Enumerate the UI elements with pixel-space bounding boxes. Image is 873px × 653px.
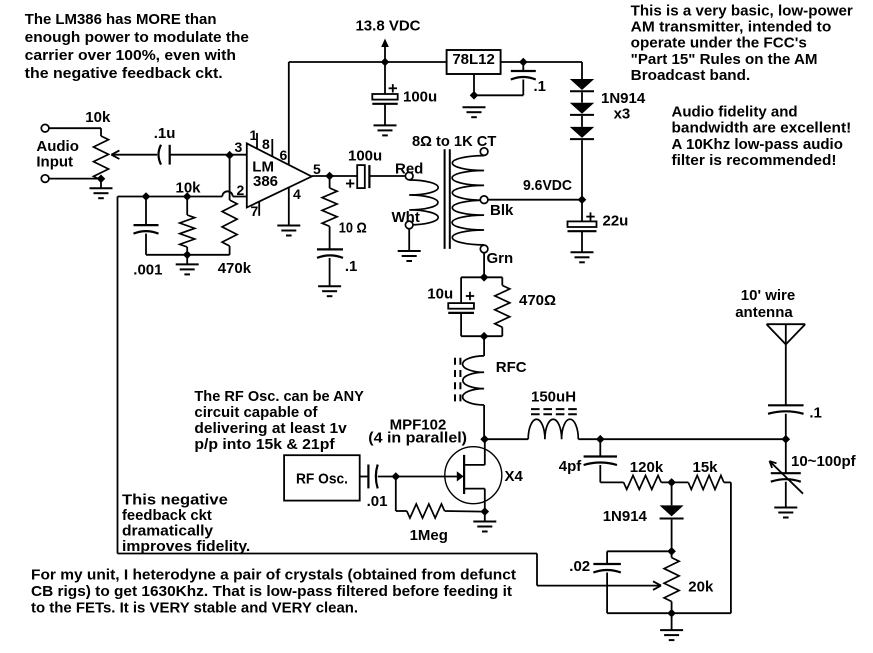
svg-text:100u: 100u [403,89,437,106]
wire 150uH to antenna node [578,435,786,444]
ground under variable cap [774,507,797,509]
label Audio Input [36,138,79,171]
svg-text:.1: .1 [345,258,358,275]
svg-text:Audio fidelity and: Audio fidelity and [672,104,798,121]
svg-text:Wht: Wht [392,209,420,226]
note: transmitter description [631,3,853,84]
capacitor C8 10u [427,277,484,336]
svg-text:the negative feedback ckt.: the negative feedback ckt. [25,65,223,82]
pin 8 tick [262,136,272,156]
svg-text:feedback ckt: feedback ckt [122,507,212,524]
svg-text:Input: Input [36,153,73,170]
capacitor C4 .1u [154,125,176,165]
svg-text:p/p into 15k & 21pf: p/p into 15k & 21pf [194,436,335,453]
resistor R3 470k [218,155,252,277]
svg-text:1N914: 1N914 [603,508,648,525]
pin 1 tick [250,127,258,149]
junction .001 top [142,192,151,201]
transformer T1 secondary [452,148,514,267]
terminal audio input gnd [41,175,49,183]
junction 10k top [183,192,192,201]
transformer T1 core [445,149,450,249]
svg-text:filter is recommended!: filter is recommended! [672,152,837,169]
wire 15k down to bottom row [607,482,731,613]
svg-text:22u: 22u [603,213,629,230]
ground under Wht [398,229,421,261]
capacitor C7 100u output [330,148,406,189]
capacitor C3 22u [568,200,629,253]
svg-text:470Ω: 470Ω [519,292,556,309]
ground under 10k [176,255,199,275]
junction pin3 node [225,151,234,160]
ground under pin 4 [277,225,300,227]
junction antenna node [782,435,791,444]
svg-text:.1u: .1u [154,125,176,142]
svg-text:10k: 10k [85,109,111,126]
svg-text:delivering at least 1v: delivering at least 1v [194,420,347,437]
block RF Osc [284,455,360,500]
svg-text:This negative: This negative [122,492,228,509]
svg-text:.1: .1 [534,78,547,95]
svg-text:CB rigs) to get 1630Khz. That: CB rigs) to get 1630Khz. That is low-pas… [31,583,512,600]
svg-text:The LM386 has MORE than: The LM386 has MORE than [25,11,217,28]
ground under VR1 [90,179,113,198]
svg-text:Blk: Blk [490,202,514,219]
svg-text:operate under the FCC's: operate under the FCC's [631,35,807,52]
resistor R5 470 ohm [484,277,556,336]
svg-text:9.6VDC: 9.6VDC [523,177,572,194]
terminal audio input hot [41,124,49,132]
svg-text:Audio: Audio [36,138,79,155]
wire drain to 150uH [485,438,529,440]
transformer T1 primary [392,161,439,229]
svg-text:10u: 10u [427,285,453,302]
diode D4 1N914 [603,482,684,551]
capacitor C6 .1 [317,249,357,286]
svg-text:"Part 15" Rules on the AM: "Part 15" Rules on the AM [631,51,818,68]
ground under 20k [660,613,683,640]
diode D2 1N914 [570,103,594,127]
svg-text:.001: .001 [133,262,162,279]
wire C4 to pin 3 [170,154,247,156]
svg-text:10~100pf: 10~100pf [791,453,857,470]
resistor R8 15k [688,459,731,489]
note: crystal heterodyne comment [31,567,516,617]
resistor R4 10 ohm [322,176,367,249]
op-amp U1 LM386 [247,143,312,207]
junction bottom row [667,609,676,618]
diode D3 1N914 [570,127,594,139]
svg-text:386: 386 [253,173,278,190]
svg-text:carrier over 100%, even with: carrier over 100%, even with [25,47,236,64]
svg-text:Grn: Grn [487,250,514,267]
svg-text:8: 8 [262,136,270,152]
wire bus to diode chain [581,62,583,79]
svg-text:10' wire: 10' wire [741,287,795,304]
svg-text:X4: X4 [505,468,524,485]
capacitor C1 100u [372,62,437,125]
junction diode/20k/.02 [667,547,676,556]
pin 4 wire [289,186,301,226]
junction supply/100u [381,58,390,67]
svg-text:.02: .02 [569,558,590,575]
svg-text:5: 5 [313,161,321,177]
capacitor C10 4pf [559,439,617,482]
ground under C6 [318,285,341,287]
variable capacitor C13 10~100pf [770,439,857,507]
svg-text:100u: 100u [348,148,382,165]
capacitor C11 .02 [569,551,671,613]
regulator U2 78L12 [447,50,501,74]
label MPF102 [368,417,467,447]
svg-text:improves fidelity.: improves fidelity. [122,538,250,555]
wire top supply bus [289,61,582,63]
wire diodes to 9.6VDC node [581,140,583,200]
svg-text:7: 7 [251,203,259,219]
junction source node [481,507,490,516]
wire pin6 supply drop [288,62,290,165]
svg-text:Broadcast band.: Broadcast band. [631,67,751,84]
capacitor C5 .001 [133,197,162,279]
inductor L1 RFC [455,336,527,439]
svg-text:78L12: 78L12 [452,51,495,68]
svg-text:The RF Osc. can be ANY: The RF Osc. can be ANY [194,388,364,405]
svg-text:15k: 15k [693,459,719,476]
note: negative feedback comment [122,492,250,555]
svg-text:1Meg: 1Meg [410,527,448,544]
junction gate node [392,472,401,481]
node 9.6VDC [488,177,586,204]
ground under C1 [374,124,397,126]
svg-text:120k: 120k [630,459,664,476]
svg-text:13.8 VDC: 13.8 VDC [355,18,420,35]
wire bottom row .001/10k/470k [146,251,230,260]
diode D1 1N914 [570,79,594,103]
antenna 10ft wire [735,287,805,405]
note: audio fidelity comment [672,104,852,169]
junction 120k/15k/diode [667,478,676,487]
svg-text:This is a very basic, low-powe: This is a very basic, low-power [631,3,853,20]
svg-text:10 Ω: 10 Ω [339,220,367,237]
wire pin2 row with hop over 470k [118,191,247,196]
svg-text:bandwidth are excellent!: bandwidth are excellent! [672,120,852,137]
potentiometer VR2 20k [664,551,714,613]
node 13.8VDC supply [355,18,420,62]
svg-text:enough power to modulate the: enough power to modulate the [25,29,249,46]
svg-text:10k: 10k [176,180,202,197]
resistor R6 1Meg [396,477,485,545]
ground under 78L12 [463,106,486,108]
svg-text:6: 6 [280,147,288,163]
note: LM386 power comment [25,11,249,82]
pin 7 tick [251,202,260,219]
inductor L2 150uH [528,389,578,440]
label 1N914 x3 [601,90,646,122]
pin 5 output [312,161,334,180]
svg-text:A 10Khz low-pass audio: A 10Khz low-pass audio [672,136,843,153]
capacitor C12 .1 antenna [768,405,822,440]
svg-text:For my unit, I heterodyne a pa: For my unit, I heterodyne a pair of crys… [31,567,516,584]
note: RF oscillator requirement [194,388,364,453]
potentiometer VR1 10k [49,109,157,183]
wire negative feedback to 20k wiper [118,197,662,590]
capacitor C9 .01 [360,465,396,511]
svg-text:4pf: 4pf [559,458,583,475]
svg-text:470k: 470k [218,260,252,277]
wire 78L12 ground pin [470,74,524,100]
svg-text:.1: .1 [809,405,822,422]
svg-text:150uH: 150uH [531,389,576,406]
svg-text:circuit capable of: circuit capable of [194,404,318,421]
svg-text:1: 1 [250,127,258,143]
svg-text:(4 in parallel): (4 in parallel) [368,430,467,447]
transistor Q1 MPF102 x4 [396,439,524,511]
svg-text:3: 3 [235,139,243,155]
svg-text:Red: Red [395,161,423,178]
junction drain node [480,435,489,444]
svg-text:RF Osc.: RF Osc. [296,470,348,487]
resistor R2 10k [176,180,202,255]
capacitor C2 .1 bypass [511,58,546,96]
ground under source [473,512,496,532]
resistor R7 120k [600,459,688,489]
svg-text:RFC: RFC [496,359,527,376]
svg-text:dramatically: dramatically [122,523,214,540]
svg-text:x3: x3 [614,106,631,123]
svg-text:20k: 20k [688,579,714,596]
svg-text:AM transmitter, intended to: AM transmitter, intended to [631,19,832,36]
svg-text:antenna: antenna [735,304,793,321]
wire Grn to parallel RC [480,253,489,282]
ground under 22u [571,251,594,253]
svg-text:4: 4 [293,186,301,202]
svg-text:.01: .01 [367,493,388,510]
junction RC bottom [480,332,489,341]
svg-text:to the FETs. It is VERY stable: to the FETs. It is VERY stable and VERY … [31,600,358,617]
